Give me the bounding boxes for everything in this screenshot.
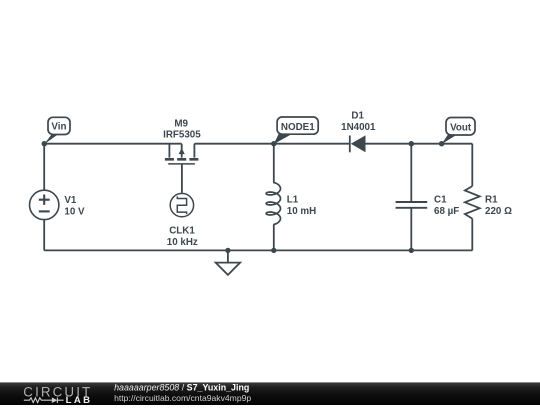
svg-text:http://circuitlab.com/cnta9akv: http://circuitlab.com/cnta9akv4mp9p: [114, 393, 251, 403]
wire top rail left (Vin to M9): [44, 143, 182, 145]
svg-text:10 kHz: 10 kHz: [167, 237, 198, 248]
wire L1 to bottom rail: [273, 225, 275, 251]
svg-text:haaaaarper8508 / S7_Yuxin_Jing: haaaaarper8508 / S7_Yuxin_Jing: [114, 382, 249, 392]
svg-text:Vin: Vin: [51, 121, 66, 132]
svg-text:R1: R1: [485, 195, 498, 206]
wire R1 bottom: [471, 219, 473, 251]
wire C1 top: [410, 144, 412, 202]
junction dot NODE1: [271, 141, 276, 146]
svg-text:V1: V1: [64, 195, 77, 206]
wire NODE1 to L1: [273, 144, 275, 183]
svg-text:1N4001: 1N4001: [341, 122, 376, 133]
junction dot L1 bottom: [271, 248, 276, 253]
inductor L1: [266, 182, 280, 224]
resistor R1: [465, 186, 480, 219]
node Vin flag: [44, 117, 70, 144]
wire M9 gate to CLK1: [181, 164, 183, 193]
wire top rail M9 to D1: [194, 143, 349, 145]
node Vout flag: [441, 118, 475, 145]
wire bottom rail: [44, 249, 472, 251]
junction dot Vin: [42, 141, 47, 146]
clock source CLK1: [170, 193, 193, 216]
node NODE1 flag: [274, 117, 319, 144]
svg-text:C1: C1: [434, 195, 447, 206]
svg-text:L1: L1: [287, 195, 299, 206]
footer logo wire doodle: [24, 397, 64, 403]
wire R1 top: [471, 144, 473, 186]
transistor M9 (PMOS): [165, 144, 199, 164]
ground: [216, 263, 240, 275]
svg-text:Vout: Vout: [450, 122, 472, 133]
svg-text:220 Ω: 220 Ω: [485, 206, 512, 217]
junction dot Vout: [439, 141, 444, 146]
diode D1: [350, 135, 366, 152]
junction dot ground: [225, 248, 230, 253]
wire top rail D1 to R1: [366, 143, 473, 145]
svg-text:10 mH: 10 mH: [287, 206, 316, 217]
svg-text:IRF5305: IRF5305: [163, 129, 201, 140]
capacitor C1: [396, 202, 428, 208]
svg-text:CLK1: CLK1: [169, 226, 195, 237]
svg-text:M9: M9: [174, 118, 188, 129]
footer bar: [0, 382, 540, 405]
svg-text:68 µF: 68 µF: [434, 206, 459, 217]
wire V1 bottom: [43, 219, 45, 250]
junction dot D1-C1: [409, 141, 414, 146]
voltage source V1: [30, 190, 59, 219]
wire C1 bottom: [410, 208, 412, 251]
junction dot C1 bottom: [409, 248, 414, 253]
svg-text:NODE1: NODE1: [281, 122, 315, 133]
wire V1 top: [43, 144, 45, 191]
wire ground stub: [227, 250, 229, 262]
svg-text:D1: D1: [351, 111, 364, 122]
svg-text:LAB: LAB: [66, 395, 93, 405]
svg-text:10 V: 10 V: [64, 207, 85, 218]
